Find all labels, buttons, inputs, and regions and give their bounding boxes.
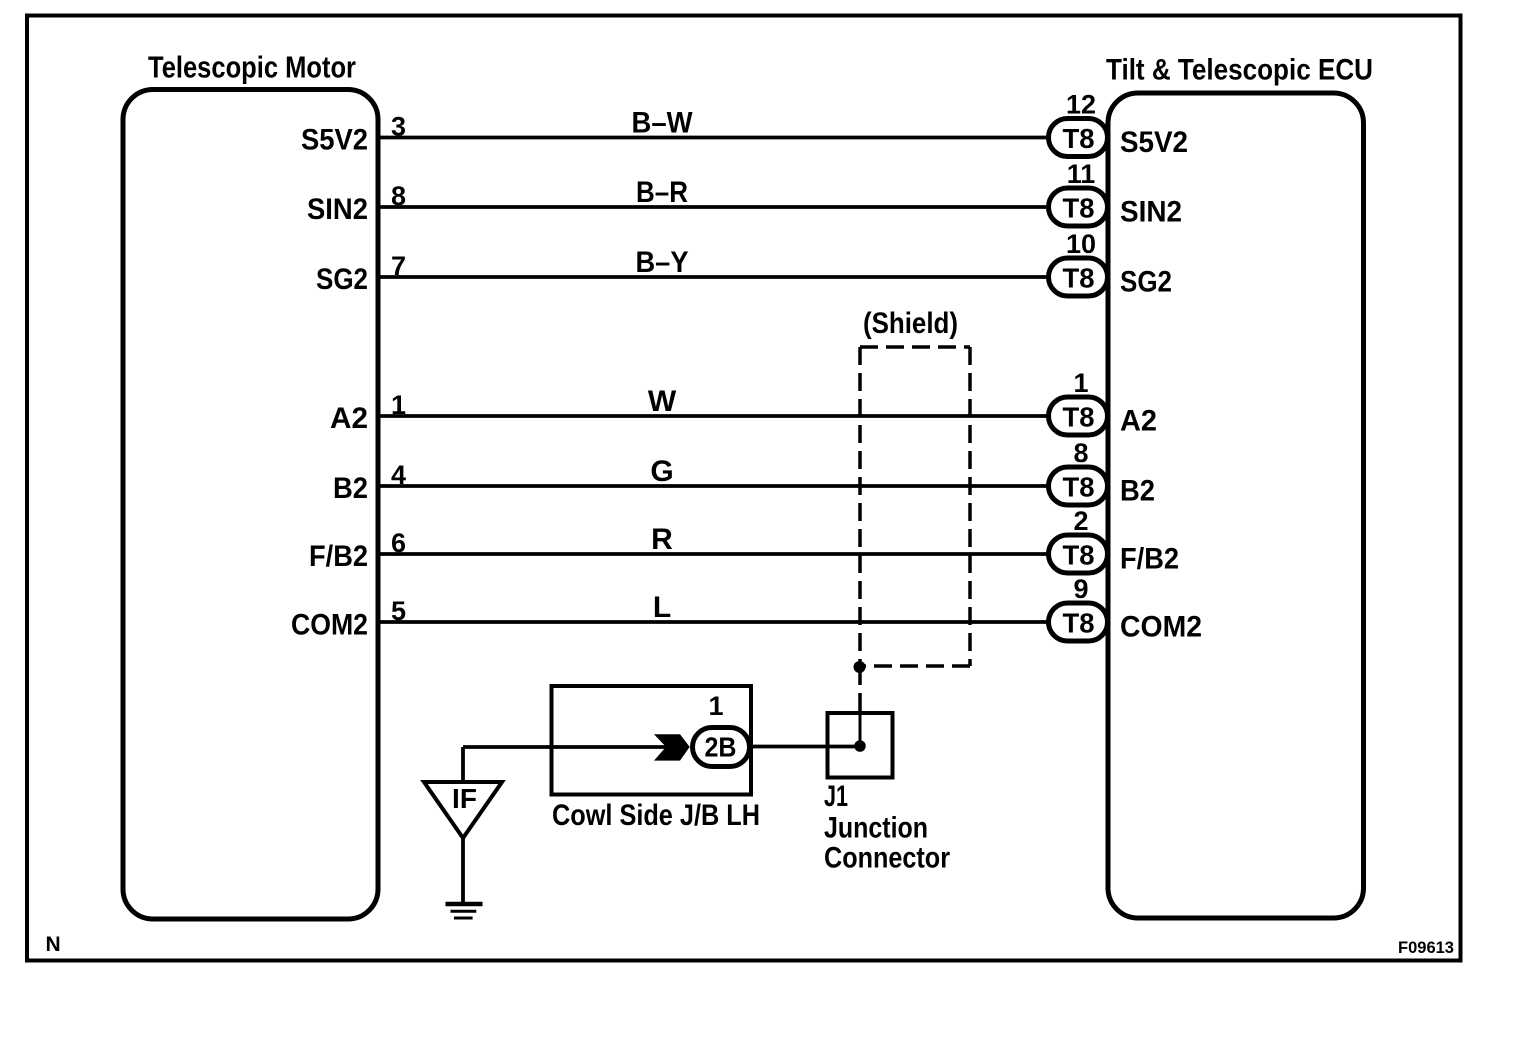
svg-text:3: 3 [391,112,406,142]
svg-text:8: 8 [391,181,406,211]
wire shield drain to J1 (dashed) [858,667,862,746]
svg-text:COM2: COM2 [291,609,368,642]
svg-text:11: 11 [1067,159,1096,189]
svg-text:Cowl Side J/B LH: Cowl Side J/B LH [552,799,760,832]
svg-text:B2: B2 [1120,475,1155,508]
svg-text:2: 2 [1073,506,1088,536]
svg-text:SG2: SG2 [1120,266,1172,299]
svg-text:J1: J1 [824,780,848,813]
svg-text:B–Y: B–Y [636,246,689,279]
svg-text:1: 1 [708,691,723,721]
svg-text:12: 12 [1066,90,1096,120]
svg-text:T8: T8 [1063,193,1095,224]
svg-text:7: 7 [391,251,406,281]
connector T8 pin 11 (SIN2) [1049,159,1108,226]
svg-text:T8: T8 [1063,472,1095,503]
svg-text:T8: T8 [1063,123,1095,154]
wire SIN2 (B-R), pin 8 to T8 pin 11 [377,176,1050,211]
svg-text:6: 6 [391,528,406,558]
wire B2 (G), pin 4 to T8 pin 8 [377,455,1050,490]
wire F/B2 (R), pin 6 to T8 pin 2 [377,523,1050,558]
svg-text:SIN2: SIN2 [1120,196,1182,229]
svg-text:W: W [648,385,677,418]
wire SG2 (B-Y), pin 7 to T8 pin 10 [377,246,1050,281]
svg-text:1: 1 [391,390,406,420]
connector T8 pin 10 (SG2) [1049,229,1108,296]
svg-text:B–W: B–W [632,107,694,140]
svg-text:F09613: F09613 [1398,938,1454,957]
svg-text:B2: B2 [333,472,368,505]
arrow (wire direction marker) [654,734,690,760]
svg-text:COM2: COM2 [1120,611,1202,644]
svg-text:T8: T8 [1063,402,1095,433]
connector block Tilt & Telescopic ECU [1106,54,1373,919]
svg-text:10: 10 [1066,229,1096,259]
svg-text:5: 5 [391,596,406,626]
connector T8 pin 8 (B2) [1049,438,1108,505]
svg-text:IF: IF [452,783,477,814]
svg-text:T8: T8 [1063,263,1095,294]
ground IF [424,782,502,918]
wire IF ground to Cowl Side J/B [463,747,666,782]
svg-text:(Shield): (Shield) [863,307,958,340]
svg-text:Telescopic Motor: Telescopic Motor [148,50,356,85]
svg-text:Junction: Junction [824,812,928,845]
connector T8 pin 2 (F/B2) [1049,506,1108,573]
svg-text:SG2: SG2 [316,263,368,296]
svg-text:Tilt & Telescopic ECU: Tilt & Telescopic ECU [1106,54,1373,87]
junction dot (shield drain) [854,661,866,673]
connector T8 pin 12 (S5V2) [1049,90,1108,157]
wire 2B to J1 [750,745,860,749]
svg-text:9: 9 [1073,574,1088,604]
svg-text:2B: 2B [705,732,737,763]
connector T8 pin 1 (A2) [1049,368,1108,435]
svg-text:L: L [653,591,671,624]
wire COM2 (L), pin 5 to T8 pin 9 [377,591,1050,626]
connector block Telescopic Motor [123,50,378,920]
connector T8 pin 9 (COM2) [1049,574,1108,641]
svg-text:1: 1 [1073,368,1088,398]
junction block Cowl Side J/B LH [552,686,761,832]
svg-text:T8: T8 [1063,540,1095,571]
svg-text:A2: A2 [330,402,368,435]
svg-text:F/B2: F/B2 [309,540,368,573]
connector 2B pin 1 [693,691,750,767]
svg-text:Connector: Connector [824,842,950,875]
svg-text:G: G [650,455,673,488]
svg-text:SIN2: SIN2 [307,193,368,226]
svg-text:N: N [46,933,61,956]
svg-text:S5V2: S5V2 [1120,126,1188,159]
svg-text:8: 8 [1073,438,1088,468]
svg-text:4: 4 [391,460,406,490]
shield (dashed) [860,307,970,666]
svg-text:T8: T8 [1063,608,1095,639]
svg-text:B–R: B–R [636,176,688,209]
wire A2 (W), pin 1 to T8 pin 1 [377,385,1050,420]
wire S5V2 (B-W), pin 3 to T8 pin 12 [377,107,1050,142]
svg-text:S5V2: S5V2 [301,124,368,157]
junction connector J1 [824,713,950,875]
svg-text:F/B2: F/B2 [1120,543,1179,576]
svg-text:R: R [651,523,673,556]
svg-text:A2: A2 [1120,405,1157,438]
